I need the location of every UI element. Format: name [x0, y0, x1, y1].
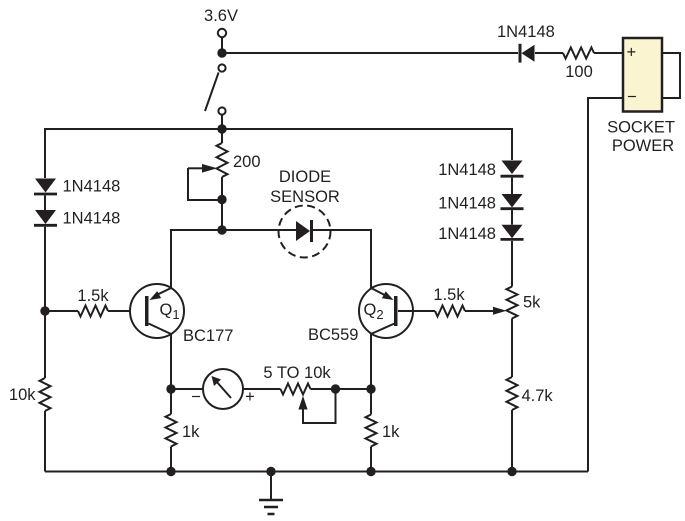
wiper arrow to 5k	[465, 307, 507, 315]
svg-text:SOCKET: SOCKET	[607, 119, 675, 137]
potentiometer 5k	[507, 287, 518, 319]
potentiometer 200	[217, 143, 228, 177]
junction pot 200 bottom	[217, 195, 226, 204]
svg-text:+: +	[245, 388, 255, 406]
wire pot to Q2 collector	[311, 388, 372, 390]
wire between D1 D2	[44, 195, 46, 210]
svg-text:SENSOR: SENSOR	[270, 188, 340, 206]
meter M1	[203, 369, 243, 409]
svg-text:1.5k: 1.5k	[433, 286, 465, 304]
wire emitter rail left	[171, 230, 297, 288]
wire to meter	[171, 388, 203, 390]
svg-text:5 TO 10k: 5 TO 10k	[263, 364, 331, 382]
wire rail y129	[45, 129, 512, 178]
junction bottom ground	[266, 467, 275, 476]
svg-text:100: 100	[565, 63, 593, 81]
junction switch to rail	[217, 124, 226, 133]
svg-text:BC559: BC559	[308, 326, 358, 344]
junction Q2 collector	[366, 384, 375, 393]
svg-text:1N4148: 1N4148	[438, 161, 496, 179]
resistor 1.5k left	[78, 306, 108, 317]
resistor 1.5k right	[435, 306, 465, 317]
diode D4 1N4148	[501, 194, 524, 209]
wire 4.7k to bottom	[511, 410, 513, 472]
junction Q1 collector meter	[166, 384, 175, 393]
svg-text:−: −	[191, 388, 201, 406]
wire 5k to 4.7k	[511, 319, 513, 378]
terminal 3.6V	[218, 29, 226, 37]
wire 1.5k to Q1 base	[108, 310, 146, 312]
svg-text:1k: 1k	[182, 423, 200, 441]
dashed circle sensor	[279, 206, 331, 258]
wire battery right loop	[662, 53, 680, 98]
wire bottom rail	[45, 471, 588, 473]
wire terminal to junction	[221, 38, 223, 53]
wire 1k left to bottom	[170, 447, 172, 472]
diode D1 1N4148	[34, 179, 57, 195]
svg-text:200: 200	[233, 153, 261, 171]
wire D4 to D5	[511, 210, 513, 225]
svg-text:10k: 10k	[9, 386, 36, 404]
pot 200 wiper	[188, 164, 222, 200]
wire emitter rail right	[313, 230, 371, 288]
wire battery minus down	[588, 98, 623, 472]
ground	[259, 472, 283, 515]
diode sensor D6	[296, 220, 312, 242]
svg-text:1.5k: 1.5k	[77, 287, 109, 305]
wire Q2 base	[398, 310, 435, 312]
junction top rail	[217, 48, 226, 57]
svg-text:1N4148: 1N4148	[438, 195, 496, 213]
svg-text:−: −	[627, 88, 637, 106]
diode D5 1N4148	[501, 225, 524, 240]
resistor 1k right	[366, 415, 377, 447]
junction bottom right rail	[507, 467, 516, 476]
diode D3 1N4148	[501, 161, 524, 177]
wire D3 to D4	[511, 178, 513, 194]
svg-text:DIODE: DIODE	[279, 168, 331, 186]
wire D5 to 5k	[511, 241, 513, 287]
wire resistor to battery	[594, 52, 623, 54]
wire Q2 collector lead	[370, 334, 372, 415]
pot 5-10k wiper	[298, 389, 335, 423]
svg-text:POWER: POWER	[612, 137, 674, 155]
wire left rail to 1.5k	[45, 310, 78, 312]
svg-text:+: +	[627, 44, 637, 62]
svg-text:1N4148: 1N4148	[438, 225, 496, 243]
wire top rail to diode	[222, 52, 518, 54]
diode D7 1N4148 top	[520, 44, 535, 63]
wire 1k right to bottom	[370, 447, 372, 472]
svg-text:4.7k: 4.7k	[522, 387, 554, 405]
wire meter to pot	[243, 388, 281, 390]
resistor 10k	[40, 378, 51, 411]
resistor 100	[563, 48, 594, 59]
battery SOCKET POWER	[623, 38, 662, 112]
diode D2 1N4148	[34, 210, 57, 225]
junction bottom 1k left	[166, 467, 175, 476]
junction emitter rail	[217, 225, 226, 234]
transistor Q1	[130, 284, 184, 338]
junction base row left	[40, 306, 49, 315]
wire 10k to bottom rail	[44, 411, 46, 472]
resistor 1k left	[166, 414, 177, 447]
junction pot loop	[331, 384, 340, 393]
transistor Q2	[359, 284, 413, 338]
svg-text:1N4148: 1N4148	[63, 209, 121, 227]
potentiometer 5 TO 10k	[281, 384, 311, 395]
wire Q1 collector	[170, 334, 172, 414]
svg-text:BC177: BC177	[183, 327, 233, 345]
resistor 4.7k	[507, 377, 518, 410]
svg-text:1N4148: 1N4148	[63, 178, 121, 196]
junction bottom 1k right	[366, 467, 375, 476]
wire left rail D2 to 10k	[44, 227, 46, 378]
svg-text:1N4148: 1N4148	[497, 23, 555, 41]
wire rail to pot 200	[221, 129, 223, 143]
wire diode to resistor 100	[535, 52, 563, 54]
switch S1	[205, 64, 226, 129]
svg-text:1k: 1k	[382, 423, 400, 441]
svg-text:5k: 5k	[523, 294, 541, 312]
wire pot to emitter rail	[221, 177, 223, 230]
svg-text:3.6V: 3.6V	[204, 7, 238, 25]
